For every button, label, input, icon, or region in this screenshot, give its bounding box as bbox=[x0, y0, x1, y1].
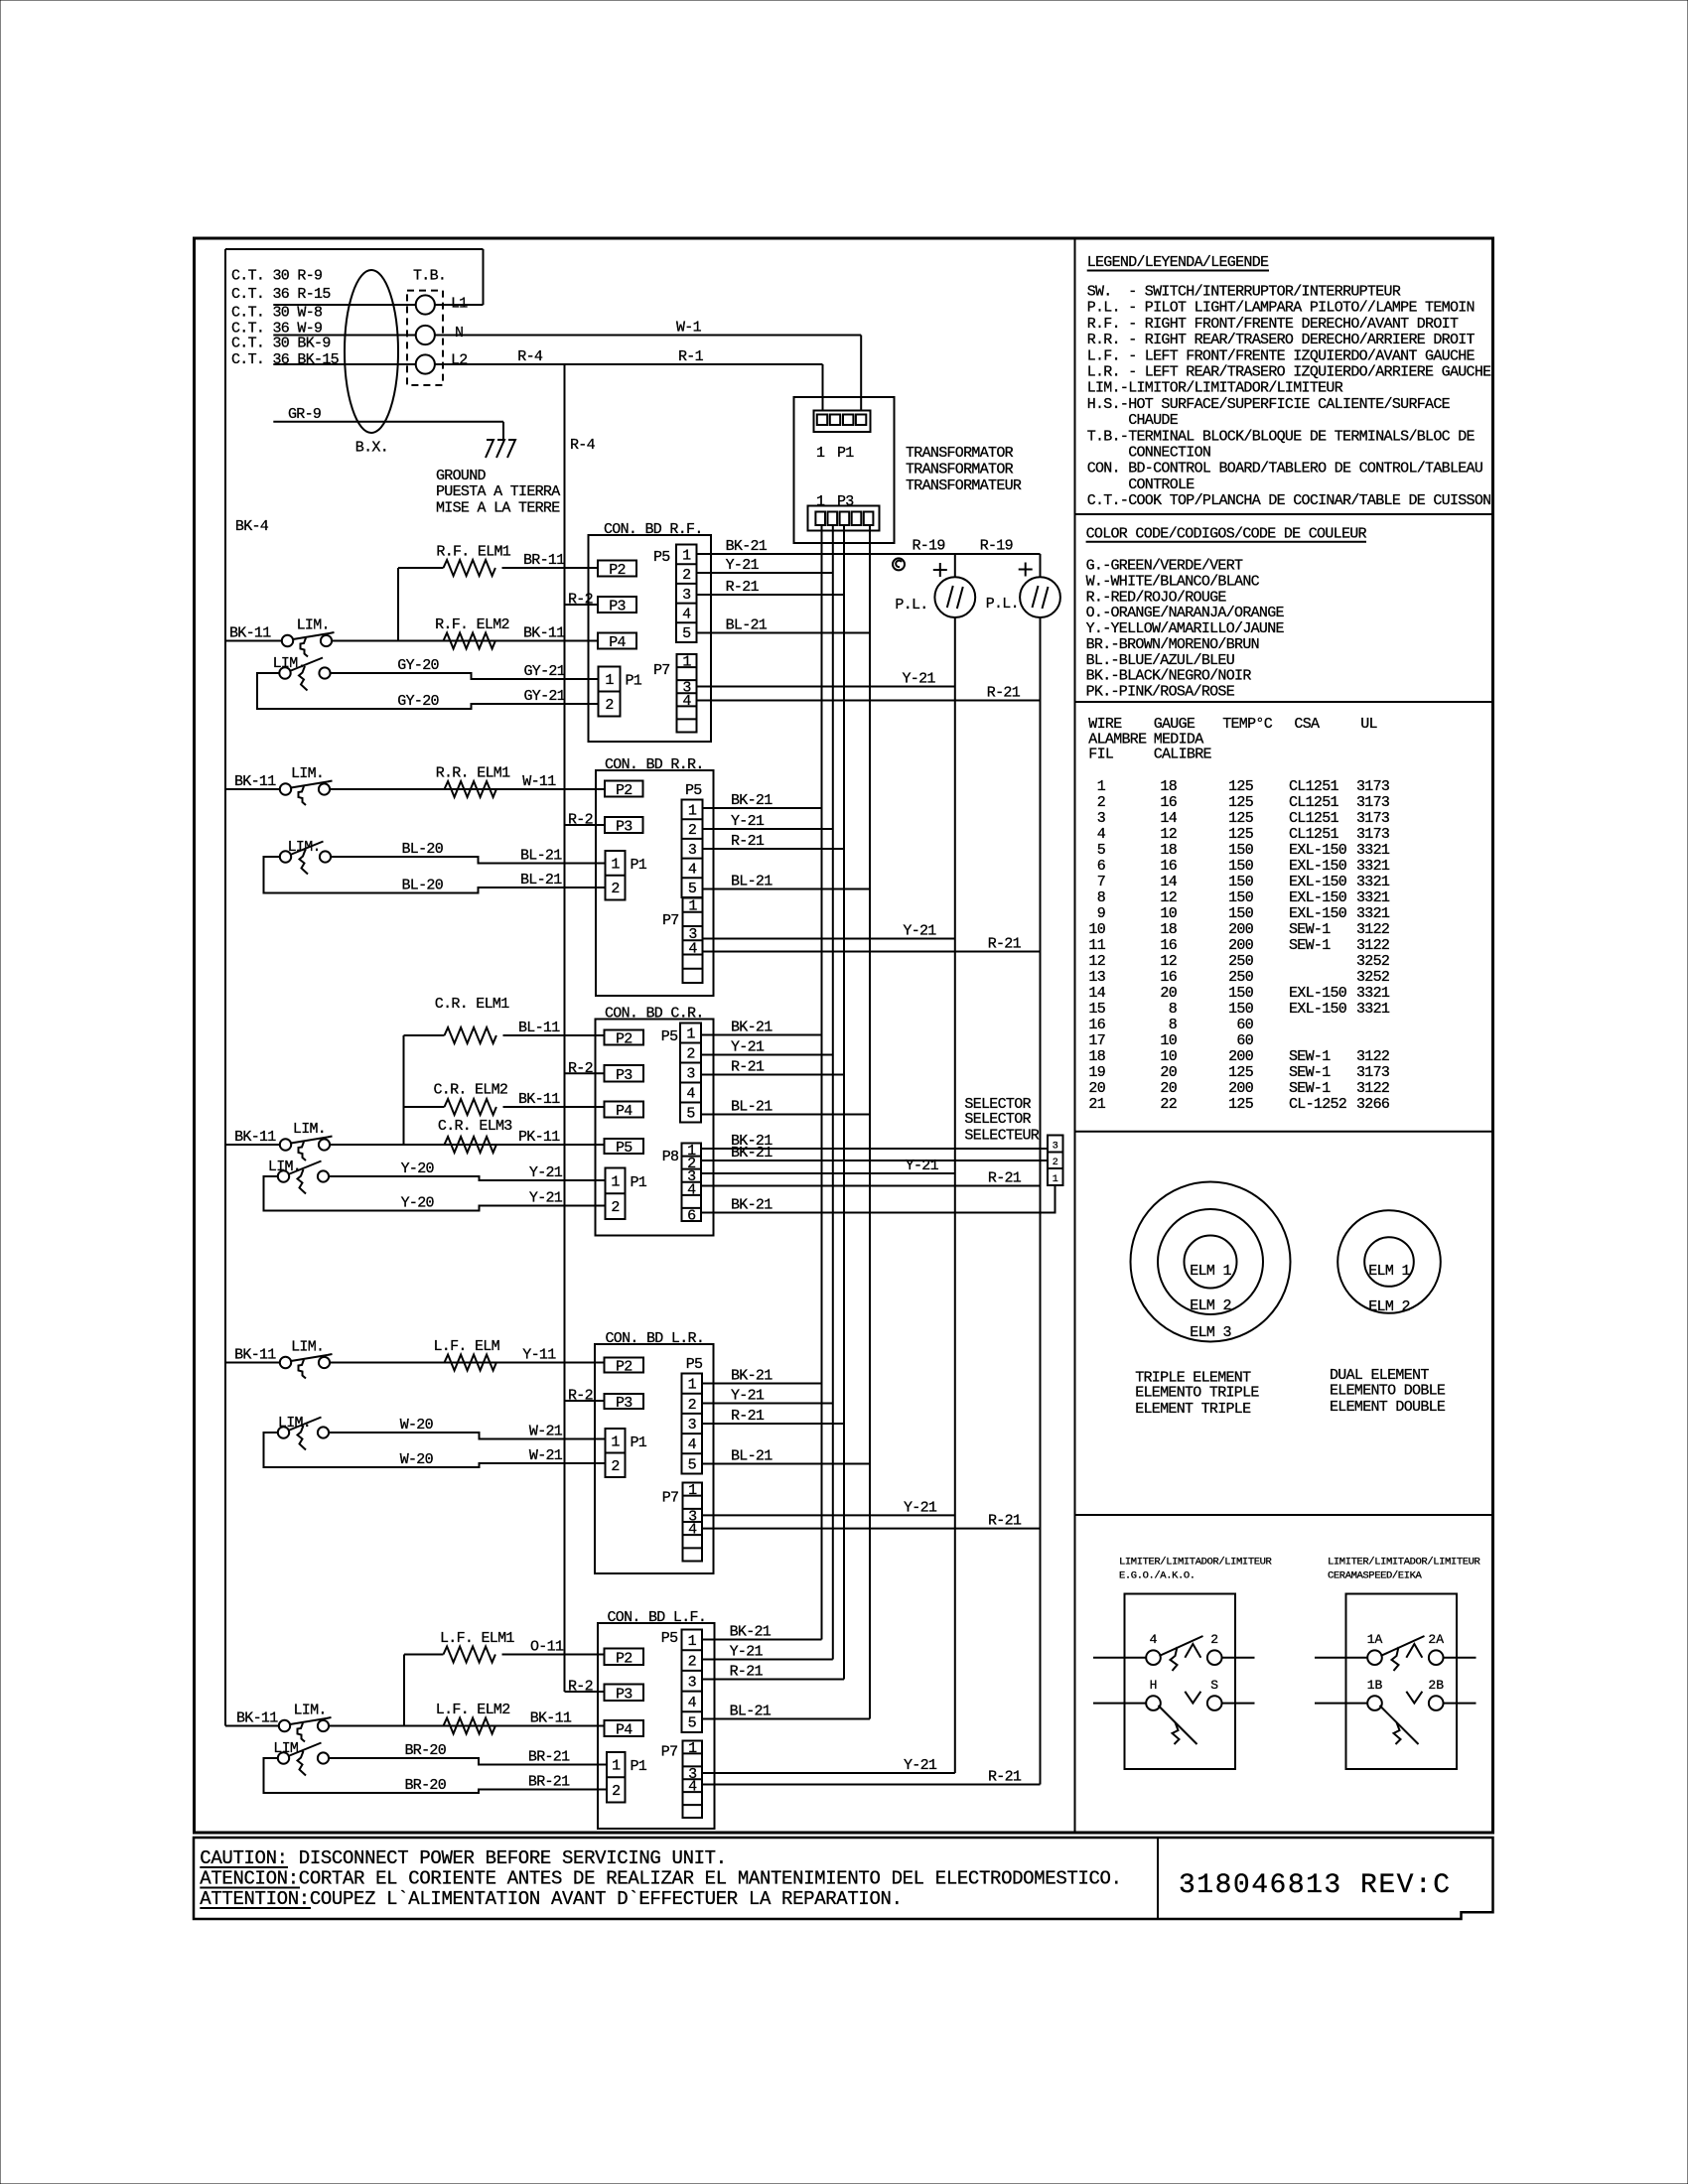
svg-text:P3: P3 bbox=[616, 819, 633, 836]
svg-text:2: 2 bbox=[1053, 1158, 1058, 1168]
svg-text:BR-21: BR-21 bbox=[528, 1774, 570, 1791]
svg-text:CON. BD R.R.: CON. BD R.R. bbox=[605, 756, 704, 773]
svg-text:C.T.-COOK TOP/PLANCHA DE COCIN: C.T.-COOK TOP/PLANCHA DE COCINAR/TABLE D… bbox=[1087, 492, 1491, 509]
svg-text:150: 150 bbox=[1228, 842, 1254, 859]
svg-text:16: 16 bbox=[1160, 858, 1177, 875]
svg-text:3173: 3173 bbox=[1356, 810, 1390, 827]
svg-text:BK-21: BK-21 bbox=[731, 1145, 773, 1161]
svg-text:60: 60 bbox=[1236, 1032, 1253, 1049]
svg-text:P3: P3 bbox=[616, 1395, 633, 1412]
svg-text:20: 20 bbox=[1160, 985, 1177, 1002]
svg-text:3: 3 bbox=[688, 1674, 697, 1691]
svg-text:Y-21: Y-21 bbox=[529, 1190, 563, 1207]
svg-text:SEW-1: SEW-1 bbox=[1289, 921, 1331, 938]
svg-text:GAUGE: GAUGE bbox=[1154, 716, 1196, 733]
svg-text:4: 4 bbox=[1097, 826, 1106, 843]
svg-text:GY-20: GY-20 bbox=[397, 657, 439, 674]
svg-text:1A: 1A bbox=[1367, 1632, 1383, 1647]
svg-text:5: 5 bbox=[1097, 842, 1106, 859]
svg-text:LIM.: LIM. bbox=[288, 839, 321, 856]
svg-text:18: 18 bbox=[1160, 921, 1177, 938]
svg-text:W-11: W-11 bbox=[522, 773, 556, 790]
svg-text:EXL-150: EXL-150 bbox=[1289, 874, 1347, 890]
svg-text:22: 22 bbox=[1160, 1096, 1177, 1113]
svg-text:LIM.: LIM. bbox=[293, 1121, 326, 1138]
svg-text:P7: P7 bbox=[662, 912, 679, 929]
svg-text:GY-21: GY-21 bbox=[524, 688, 566, 705]
svg-text:1: 1 bbox=[611, 856, 620, 873]
svg-text:2: 2 bbox=[682, 567, 690, 584]
svg-text:12: 12 bbox=[1160, 826, 1177, 843]
svg-text:SEW-1: SEW-1 bbox=[1289, 1064, 1331, 1081]
svg-text:BR-11: BR-11 bbox=[523, 552, 565, 569]
svg-text:R.F. ELM2: R.F. ELM2 bbox=[435, 616, 509, 633]
svg-text:P.L.: P.L. bbox=[895, 597, 927, 614]
svg-text:EXL-150: EXL-150 bbox=[1289, 858, 1347, 875]
svg-text:G.-GREEN/VERDE/VERT: G.-GREEN/VERDE/VERT bbox=[1086, 558, 1243, 575]
svg-text:14: 14 bbox=[1088, 985, 1105, 1002]
svg-text:W-20: W-20 bbox=[400, 1417, 434, 1433]
svg-text:C.R. ELM2: C.R. ELM2 bbox=[434, 1082, 508, 1099]
svg-text:1: 1 bbox=[688, 898, 697, 915]
svg-text:P2: P2 bbox=[616, 782, 633, 799]
svg-text:9: 9 bbox=[1097, 905, 1105, 922]
svg-text:R-19: R-19 bbox=[913, 538, 945, 555]
svg-text:T.B.: T.B. bbox=[413, 268, 446, 285]
svg-text:FIL: FIL bbox=[1088, 747, 1114, 763]
svg-text:LEGEND/LEYENDA/LEGENDE: LEGEND/LEYENDA/LEGENDE bbox=[1087, 254, 1269, 271]
svg-text:125: 125 bbox=[1228, 826, 1254, 843]
svg-text:P5: P5 bbox=[616, 1140, 633, 1157]
svg-text:LIM.-LIMITOR/LIMITADOR/LIMITEU: LIM.-LIMITOR/LIMITADOR/LIMITEUR bbox=[1087, 380, 1343, 397]
svg-text:ELM 2: ELM 2 bbox=[1190, 1297, 1231, 1314]
svg-text:R-21: R-21 bbox=[726, 579, 760, 596]
svg-text:P3: P3 bbox=[837, 493, 854, 510]
svg-text:14: 14 bbox=[1160, 874, 1177, 890]
svg-text:18: 18 bbox=[1160, 778, 1177, 795]
svg-text:R-21: R-21 bbox=[988, 1769, 1022, 1786]
svg-text:BR-20: BR-20 bbox=[405, 1777, 447, 1794]
svg-text:20: 20 bbox=[1160, 1080, 1177, 1097]
svg-text:GY-20: GY-20 bbox=[397, 693, 439, 710]
svg-text:125: 125 bbox=[1228, 1096, 1254, 1113]
svg-text:P1: P1 bbox=[631, 857, 647, 874]
svg-text:18: 18 bbox=[1088, 1048, 1105, 1065]
svg-text:3122: 3122 bbox=[1356, 1048, 1389, 1065]
svg-text:C.T. 30 W-8: C.T. 30 W-8 bbox=[231, 305, 323, 322]
svg-text:P.L. - PILOT LIGHT/LAMPARA PIL: P.L. - PILOT LIGHT/LAMPARA PILOTO//LAMPE… bbox=[1087, 300, 1475, 317]
svg-text:BK-11: BK-11 bbox=[234, 1347, 276, 1364]
svg-text:DUAL ELEMENT: DUAL ELEMENT bbox=[1330, 1367, 1429, 1384]
svg-text:S: S bbox=[1210, 1678, 1218, 1693]
svg-text:BK-21: BK-21 bbox=[730, 1624, 772, 1641]
svg-text:BR-20: BR-20 bbox=[405, 1742, 447, 1759]
svg-text:R-19: R-19 bbox=[980, 538, 1013, 555]
svg-text:O.-ORANGE/NARANJA/ORANGE: O.-ORANGE/NARANJA/ORANGE bbox=[1086, 605, 1285, 621]
svg-text:TEMP°C: TEMP°C bbox=[1222, 716, 1273, 733]
svg-text:11: 11 bbox=[1088, 937, 1105, 954]
svg-text:C.T. 30 R-9: C.T. 30 R-9 bbox=[231, 268, 322, 285]
svg-text:BK-4: BK-4 bbox=[235, 518, 269, 535]
svg-text:O-11: O-11 bbox=[530, 1639, 564, 1656]
svg-text:318046813 REV:C: 318046813 REV:C bbox=[1179, 1870, 1452, 1901]
svg-text:3122: 3122 bbox=[1356, 1080, 1389, 1097]
svg-text:BK-11: BK-11 bbox=[523, 625, 565, 642]
svg-text:5: 5 bbox=[688, 881, 697, 897]
svg-text:P7: P7 bbox=[661, 1744, 678, 1761]
svg-text:Y-21: Y-21 bbox=[731, 813, 765, 830]
svg-text:W.-WHITE/BLANCO/BLANC: W.-WHITE/BLANCO/BLANC bbox=[1086, 573, 1260, 590]
svg-text:2: 2 bbox=[612, 1783, 620, 1800]
svg-text:5: 5 bbox=[682, 625, 691, 642]
svg-text:Y-21: Y-21 bbox=[730, 1644, 764, 1661]
svg-text:P7: P7 bbox=[662, 1490, 679, 1507]
svg-text:TRANSFORMATEUR: TRANSFORMATEUR bbox=[906, 478, 1022, 494]
svg-text:T.B.-TERMINAL BLOCK/BLOQUE DE: T.B.-TERMINAL BLOCK/BLOQUE DE TERMINALS/… bbox=[1087, 428, 1476, 445]
svg-text:1: 1 bbox=[688, 1482, 697, 1499]
svg-text:P3: P3 bbox=[616, 1067, 633, 1084]
svg-text:BK-11: BK-11 bbox=[236, 1710, 278, 1727]
svg-text:2: 2 bbox=[688, 822, 696, 839]
svg-text:COLOR CODE/CODIGOS/CODE DE COU: COLOR CODE/CODIGOS/CODE DE COULEUR bbox=[1086, 525, 1367, 542]
svg-text:L.F. ELM2: L.F. ELM2 bbox=[436, 1702, 510, 1718]
svg-text:17: 17 bbox=[1088, 1032, 1105, 1049]
svg-text:Y-20: Y-20 bbox=[401, 1160, 435, 1177]
svg-text:R-21: R-21 bbox=[988, 936, 1022, 953]
svg-text:R-21: R-21 bbox=[731, 1059, 765, 1076]
svg-text:4: 4 bbox=[688, 861, 697, 878]
svg-text:4: 4 bbox=[688, 1522, 697, 1539]
svg-text:20: 20 bbox=[1088, 1080, 1105, 1097]
svg-text:150: 150 bbox=[1228, 858, 1254, 875]
svg-text:3173: 3173 bbox=[1356, 826, 1390, 843]
svg-text:H.S.-HOT SURFACE/SUPERFICIE CA: H.S.-HOT SURFACE/SUPERFICIE CALIENTE/SUR… bbox=[1087, 396, 1451, 413]
svg-text:10: 10 bbox=[1160, 1048, 1177, 1065]
svg-text:3: 3 bbox=[1097, 810, 1106, 827]
svg-text:L2: L2 bbox=[451, 352, 468, 369]
svg-text:2: 2 bbox=[688, 1654, 696, 1671]
svg-text:3: 3 bbox=[682, 587, 691, 604]
svg-text:R-21: R-21 bbox=[988, 1513, 1022, 1530]
svg-text:Y-20: Y-20 bbox=[401, 1195, 435, 1212]
svg-text:TRANSFORMATOR: TRANSFORMATOR bbox=[906, 462, 1014, 478]
svg-text:P5: P5 bbox=[661, 1028, 678, 1045]
svg-text:Y.-YELLOW/AMARILLO/JAUNE: Y.-YELLOW/AMARILLO/JAUNE bbox=[1086, 620, 1285, 637]
svg-text:R-4: R-4 bbox=[517, 348, 543, 365]
svg-text:BK.-BLACK/NEGRO/NOIR: BK.-BLACK/NEGRO/NOIR bbox=[1086, 668, 1252, 685]
svg-text:GR-9: GR-9 bbox=[288, 406, 321, 423]
svg-text:ELM 3: ELM 3 bbox=[1190, 1324, 1231, 1341]
svg-text:EXL-150: EXL-150 bbox=[1289, 842, 1347, 859]
svg-text:P5: P5 bbox=[686, 1356, 703, 1373]
svg-text:P2: P2 bbox=[616, 1650, 633, 1667]
svg-text:Y-21: Y-21 bbox=[906, 1158, 939, 1174]
svg-text:1: 1 bbox=[611, 1433, 620, 1450]
svg-text:16: 16 bbox=[1160, 969, 1177, 986]
svg-text:3321: 3321 bbox=[1356, 874, 1390, 890]
svg-text:CL-1252: CL-1252 bbox=[1289, 1096, 1346, 1113]
svg-text:SEW-1: SEW-1 bbox=[1289, 1048, 1331, 1065]
svg-text:R.R. ELM1: R.R. ELM1 bbox=[436, 765, 510, 782]
svg-text:Y-21: Y-21 bbox=[731, 1388, 765, 1405]
svg-text:3122: 3122 bbox=[1356, 937, 1389, 954]
svg-text:BK-21: BK-21 bbox=[731, 1020, 773, 1036]
svg-text:3252: 3252 bbox=[1356, 953, 1389, 970]
svg-text:10: 10 bbox=[1160, 1032, 1177, 1049]
svg-text:Y-21: Y-21 bbox=[903, 671, 936, 688]
svg-text:2: 2 bbox=[611, 881, 619, 897]
svg-text:ELM 1: ELM 1 bbox=[1368, 1263, 1410, 1280]
svg-text:CHAUDE: CHAUDE bbox=[1087, 412, 1179, 429]
svg-text:L.F. ELM1: L.F. ELM1 bbox=[440, 1630, 514, 1647]
svg-text:LIM.: LIM. bbox=[297, 617, 330, 634]
svg-text:7: 7 bbox=[1097, 874, 1105, 890]
svg-text:10: 10 bbox=[1160, 905, 1177, 922]
svg-text:6: 6 bbox=[1097, 858, 1106, 875]
svg-text:R.F. ELM1: R.F. ELM1 bbox=[436, 544, 510, 561]
svg-text:2: 2 bbox=[605, 697, 613, 714]
svg-text:BL-21: BL-21 bbox=[731, 1448, 773, 1465]
svg-text:LIM.: LIM. bbox=[273, 1740, 306, 1757]
svg-text:2: 2 bbox=[611, 1199, 619, 1216]
svg-text:4: 4 bbox=[682, 693, 691, 710]
svg-text:LIM.: LIM. bbox=[273, 655, 306, 672]
svg-text:ELEMENTO TRIPLE: ELEMENTO TRIPLE bbox=[1135, 1385, 1259, 1402]
svg-text:P1: P1 bbox=[837, 445, 854, 462]
svg-text:60: 60 bbox=[1236, 1017, 1253, 1033]
svg-text:P1: P1 bbox=[631, 1174, 647, 1191]
svg-text:Y-21: Y-21 bbox=[904, 1499, 937, 1516]
svg-text:4: 4 bbox=[688, 940, 697, 957]
svg-text:LIM.: LIM. bbox=[268, 1159, 301, 1175]
svg-text:Y-21: Y-21 bbox=[904, 1757, 937, 1774]
svg-text:CON. BD L.F.: CON. BD L.F. bbox=[608, 1609, 707, 1626]
svg-text:P1: P1 bbox=[626, 673, 642, 690]
svg-text:L.F. - LEFT FRONT/FRENTE IZQUI: L.F. - LEFT FRONT/FRENTE IZQUIERDO/AVANT… bbox=[1087, 347, 1476, 364]
svg-text:B.X.: B.X. bbox=[355, 440, 388, 457]
svg-text:SW. - SWITCH/INTERRUPTOR/INTE: SW. - SWITCH/INTERRUPTOR/INTERRUPTEUR bbox=[1087, 284, 1401, 301]
svg-text:EXL-150: EXL-150 bbox=[1289, 985, 1347, 1002]
svg-text:1: 1 bbox=[816, 445, 825, 462]
svg-text:R.R. - RIGHT REAR/TRASERO DERE: R.R. - RIGHT REAR/TRASERO DERECHO/ARRIER… bbox=[1087, 332, 1476, 348]
svg-text:ATTENTION:COUPEZ L`ALIMENTATIO: ATTENTION:COUPEZ L`ALIMENTATION AVANT D`… bbox=[200, 1888, 902, 1910]
svg-text:20: 20 bbox=[1160, 1064, 1177, 1081]
svg-text:BR.-BROWN/MORENO/BRUN: BR.-BROWN/MORENO/BRUN bbox=[1086, 636, 1259, 653]
svg-text:BL-20: BL-20 bbox=[402, 841, 444, 858]
svg-text:C.T. 36 BK-15: C.T. 36 BK-15 bbox=[231, 351, 340, 368]
svg-text:BL-21: BL-21 bbox=[730, 1704, 772, 1720]
svg-text:3321: 3321 bbox=[1356, 985, 1390, 1002]
svg-text:Y-21: Y-21 bbox=[731, 1039, 765, 1056]
svg-text:2: 2 bbox=[1097, 794, 1105, 811]
svg-text:CAUTION: DISCONNECT POWER BEFO: CAUTION: DISCONNECT POWER BEFORE SERVICI… bbox=[200, 1847, 727, 1869]
svg-text:R.-RED/ROJO/ROUGE: R.-RED/ROJO/ROUGE bbox=[1086, 589, 1227, 606]
svg-text:1: 1 bbox=[688, 802, 697, 819]
svg-text:C.R. ELM3: C.R. ELM3 bbox=[438, 1118, 512, 1135]
svg-text:P8: P8 bbox=[662, 1149, 679, 1165]
svg-text:GY-21: GY-21 bbox=[524, 663, 566, 680]
svg-text:150: 150 bbox=[1228, 889, 1254, 906]
svg-text:L.R. - LEFT REAR/TRASERO IZQUI: L.R. - LEFT REAR/TRASERO IZQUIERDO/ARRIE… bbox=[1087, 364, 1491, 381]
svg-text:TRANSFORMATOR: TRANSFORMATOR bbox=[906, 445, 1014, 462]
svg-text:MISE A LA TERRE: MISE A LA TERRE bbox=[436, 499, 560, 516]
svg-text:R-2: R-2 bbox=[568, 592, 593, 609]
svg-text:3252: 3252 bbox=[1356, 969, 1389, 986]
svg-text:BL-21: BL-21 bbox=[520, 872, 562, 888]
svg-text:LIMITER/LIMITADOR/LIMITEUR: LIMITER/LIMITADOR/LIMITEUR bbox=[1328, 1557, 1481, 1569]
svg-text:CL1251: CL1251 bbox=[1289, 778, 1339, 795]
svg-text:1: 1 bbox=[688, 1377, 697, 1394]
svg-text:1: 1 bbox=[611, 1173, 620, 1190]
svg-text:SEW-1: SEW-1 bbox=[1289, 1080, 1331, 1097]
svg-text:3266: 3266 bbox=[1356, 1096, 1390, 1113]
svg-text:3: 3 bbox=[686, 1066, 695, 1083]
svg-text:CON. BD-CONTROL BOARD/TABLERO: CON. BD-CONTROL BOARD/TABLERO DE CONTROL… bbox=[1087, 461, 1482, 478]
svg-text:4: 4 bbox=[688, 1779, 697, 1796]
svg-text:3173: 3173 bbox=[1356, 794, 1390, 811]
svg-text:BR-21: BR-21 bbox=[528, 1749, 570, 1766]
svg-text:16: 16 bbox=[1088, 1017, 1105, 1033]
svg-text:P1: P1 bbox=[631, 1434, 647, 1451]
svg-text:ELM 2: ELM 2 bbox=[1368, 1298, 1410, 1315]
svg-text:200: 200 bbox=[1228, 937, 1254, 954]
svg-text:SELECTOR: SELECTOR bbox=[964, 1111, 1031, 1128]
svg-text:P2: P2 bbox=[616, 1359, 633, 1376]
svg-text:SELECTEUR: SELECTEUR bbox=[964, 1128, 1039, 1145]
svg-text:2: 2 bbox=[1210, 1632, 1218, 1647]
svg-text:4: 4 bbox=[682, 606, 691, 622]
svg-text:10: 10 bbox=[1088, 921, 1105, 938]
svg-text:BL-21: BL-21 bbox=[731, 1099, 773, 1116]
svg-text:PUESTA A TIERRA: PUESTA A TIERRA bbox=[436, 483, 560, 500]
svg-text:P2: P2 bbox=[616, 1031, 633, 1048]
svg-text:3122: 3122 bbox=[1356, 921, 1389, 938]
svg-text:BK-21: BK-21 bbox=[726, 538, 768, 555]
svg-text:21: 21 bbox=[1088, 1096, 1105, 1113]
svg-text:3321: 3321 bbox=[1356, 1001, 1390, 1018]
svg-text:R-4: R-4 bbox=[570, 437, 596, 454]
svg-text:W-21: W-21 bbox=[529, 1447, 563, 1464]
svg-text:R-21: R-21 bbox=[731, 1408, 765, 1425]
svg-text:BL-11: BL-11 bbox=[518, 1020, 560, 1036]
svg-text:SEW-1: SEW-1 bbox=[1289, 937, 1331, 954]
svg-text:Y-11: Y-11 bbox=[522, 1347, 556, 1364]
svg-text:C.T. 30 BK-9: C.T. 30 BK-9 bbox=[231, 336, 331, 352]
svg-text:PK-11: PK-11 bbox=[518, 1129, 560, 1146]
svg-text:13: 13 bbox=[1088, 969, 1105, 986]
svg-text:P4: P4 bbox=[609, 634, 626, 651]
svg-text:8: 8 bbox=[1169, 1001, 1178, 1018]
svg-text:8: 8 bbox=[1169, 1017, 1178, 1033]
svg-text:150: 150 bbox=[1228, 905, 1254, 922]
svg-text:12: 12 bbox=[1160, 953, 1177, 970]
svg-text:C.T. 36 R-15: C.T. 36 R-15 bbox=[231, 286, 331, 303]
svg-text:1: 1 bbox=[686, 1026, 695, 1043]
svg-text:P.L.: P.L. bbox=[986, 596, 1019, 613]
svg-text:Y-21: Y-21 bbox=[903, 923, 936, 940]
svg-text:200: 200 bbox=[1228, 1048, 1254, 1065]
svg-text:1: 1 bbox=[1097, 778, 1106, 795]
svg-text:3173: 3173 bbox=[1356, 778, 1390, 795]
svg-text:150: 150 bbox=[1228, 874, 1254, 890]
svg-text:6: 6 bbox=[687, 1207, 696, 1224]
svg-text:WIRE: WIRE bbox=[1088, 716, 1122, 733]
svg-text:2: 2 bbox=[611, 1458, 619, 1475]
svg-text:1: 1 bbox=[612, 1758, 621, 1775]
svg-text:19: 19 bbox=[1088, 1064, 1105, 1081]
svg-text:14: 14 bbox=[1160, 810, 1177, 827]
svg-text:3: 3 bbox=[688, 1417, 697, 1433]
svg-text:R-2: R-2 bbox=[568, 1679, 593, 1696]
svg-text:125: 125 bbox=[1228, 1064, 1254, 1081]
svg-text:1: 1 bbox=[1053, 1174, 1058, 1185]
svg-text:BK-11: BK-11 bbox=[229, 625, 271, 642]
svg-text:R-2: R-2 bbox=[568, 812, 593, 829]
svg-text:P7: P7 bbox=[653, 662, 670, 679]
svg-text:18: 18 bbox=[1160, 842, 1177, 859]
svg-text:LIM.: LIM. bbox=[291, 1339, 324, 1356]
svg-text:BL-21: BL-21 bbox=[520, 848, 562, 865]
svg-text:BK-21: BK-21 bbox=[731, 792, 773, 809]
svg-text:2B: 2B bbox=[1428, 1678, 1444, 1693]
svg-text:3321: 3321 bbox=[1356, 889, 1390, 906]
svg-text:BL.-BLUE/AZUL/BLEU: BL.-BLUE/AZUL/BLEU bbox=[1086, 652, 1234, 669]
svg-text:R-21: R-21 bbox=[988, 1170, 1022, 1187]
svg-text:CSA: CSA bbox=[1294, 716, 1320, 733]
svg-text:4: 4 bbox=[688, 1695, 697, 1711]
svg-text:W-1: W-1 bbox=[676, 320, 702, 337]
svg-text:LIM.: LIM. bbox=[291, 765, 324, 782]
svg-text:GROUND: GROUND bbox=[436, 468, 487, 484]
svg-text:5: 5 bbox=[688, 1715, 697, 1732]
svg-text:CL1251: CL1251 bbox=[1289, 794, 1339, 811]
svg-text:ELM 1: ELM 1 bbox=[1190, 1263, 1231, 1280]
svg-text:ELEMENTO DOBLE: ELEMENTO DOBLE bbox=[1330, 1383, 1446, 1400]
svg-text:P3: P3 bbox=[616, 1686, 633, 1703]
svg-text:8: 8 bbox=[1097, 889, 1106, 906]
svg-text:BK-11: BK-11 bbox=[234, 773, 276, 790]
svg-text:R-21: R-21 bbox=[987, 685, 1021, 702]
svg-text:ELEMENT DOUBLE: ELEMENT DOUBLE bbox=[1330, 1399, 1446, 1416]
svg-text:1: 1 bbox=[688, 1633, 697, 1650]
svg-text:1: 1 bbox=[682, 654, 691, 671]
svg-text:2: 2 bbox=[688, 1397, 696, 1414]
svg-text:125: 125 bbox=[1228, 794, 1254, 811]
svg-text:16: 16 bbox=[1160, 794, 1177, 811]
svg-text:CONNECTION: CONNECTION bbox=[1087, 445, 1211, 462]
svg-text:P2: P2 bbox=[609, 562, 626, 579]
svg-text:R-2: R-2 bbox=[568, 1060, 593, 1077]
svg-text:R-1: R-1 bbox=[678, 348, 704, 365]
svg-text:C.R. ELM1: C.R. ELM1 bbox=[435, 996, 509, 1013]
svg-text:BK-21: BK-21 bbox=[731, 1368, 773, 1385]
svg-text:3321: 3321 bbox=[1356, 858, 1390, 875]
svg-text:Y-21: Y-21 bbox=[726, 557, 760, 574]
svg-text:BL-21: BL-21 bbox=[731, 874, 773, 890]
svg-text:200: 200 bbox=[1228, 921, 1254, 938]
svg-text:P5: P5 bbox=[661, 1630, 678, 1647]
svg-text:EXL-150: EXL-150 bbox=[1289, 905, 1347, 922]
svg-text:CON. BD C.R.: CON. BD C.R. bbox=[605, 1006, 704, 1023]
svg-text:125: 125 bbox=[1228, 778, 1254, 795]
svg-text:CON. BD R.F.: CON. BD R.F. bbox=[604, 521, 703, 538]
svg-text:PK.-PINK/ROSA/ROSE: PK.-PINK/ROSA/ROSE bbox=[1086, 683, 1235, 700]
svg-text:CL1251: CL1251 bbox=[1289, 826, 1339, 843]
svg-text:R-21: R-21 bbox=[730, 1664, 764, 1681]
svg-text:125: 125 bbox=[1228, 810, 1254, 827]
svg-text:R-21: R-21 bbox=[731, 833, 765, 850]
svg-text:2A: 2A bbox=[1428, 1632, 1444, 1647]
